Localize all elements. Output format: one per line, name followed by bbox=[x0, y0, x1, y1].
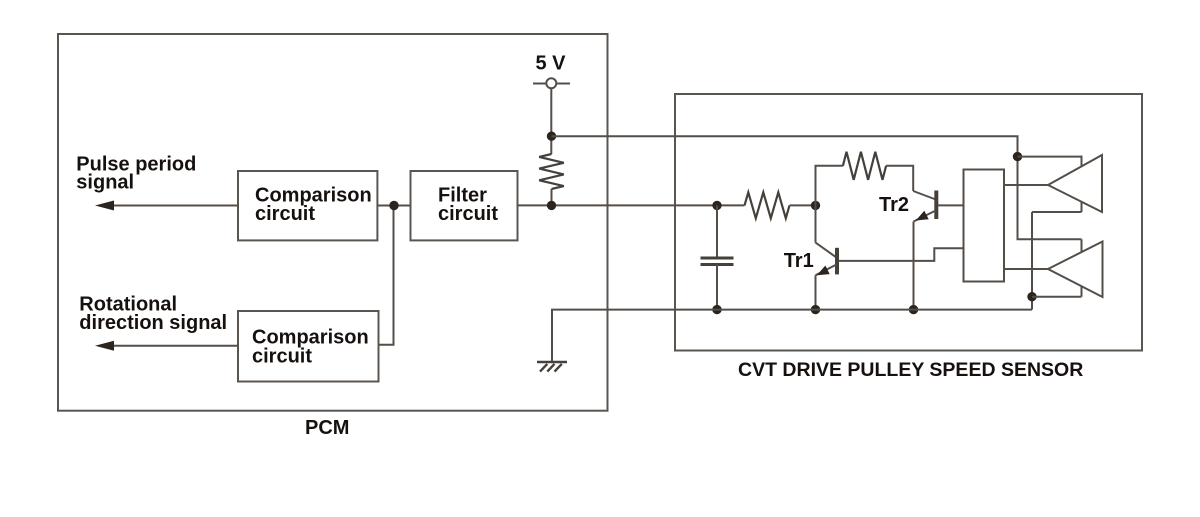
node D junction dot (capacitor tap) bbox=[712, 201, 721, 210]
wire Tr2 emitter to ground rail bbox=[913, 222, 915, 310]
comparison circuit box U1 bbox=[238, 171, 377, 240]
wire R2 to node E bbox=[790, 204, 816, 206]
wire main signal line bbox=[518, 204, 745, 206]
comparison circuit box U3 bbox=[238, 311, 379, 382]
wire arrow rotational direction output bbox=[95, 341, 238, 351]
wire Tr2 base to IC bbox=[938, 204, 964, 206]
coil L2 core bar bbox=[1081, 239, 1083, 296]
5V terminal bbox=[533, 53, 570, 89]
coil L2 pickup triangle bbox=[1048, 242, 1103, 298]
svg-text:Tr1: Tr1 bbox=[784, 250, 814, 272]
wire upper coil bottom bbox=[1032, 211, 1082, 213]
wire IC to upper coil apex bbox=[1004, 184, 1048, 186]
svg-text:signal: signal bbox=[76, 172, 134, 194]
node G junction dot bbox=[909, 305, 918, 314]
svg-text:circuit: circuit bbox=[255, 203, 315, 225]
transistor Tr2 bbox=[913, 191, 936, 222]
svg-text:direction signal: direction signal bbox=[79, 312, 227, 334]
label Rotational direction signal bbox=[79, 294, 227, 335]
node C junction dot bbox=[547, 201, 556, 210]
node E junction dot bbox=[811, 201, 820, 210]
filter circuit box U2 bbox=[411, 171, 518, 240]
wire coil return vertical bbox=[1031, 212, 1033, 310]
coil L1 core bar bbox=[1081, 156, 1083, 213]
wire ground rail bbox=[552, 310, 1032, 362]
coil L1 pickup triangle bbox=[1048, 155, 1102, 212]
wire node H to lower coil bottom bbox=[1032, 296, 1082, 298]
resistor R3 feedback bbox=[843, 152, 886, 180]
wire U1 to filter bbox=[377, 205, 410, 207]
PCM box bbox=[58, 34, 608, 411]
IC block bbox=[964, 170, 1005, 282]
svg-text:5 V: 5 V bbox=[536, 53, 567, 75]
wire R3 to Tr2 collector bbox=[886, 166, 913, 191]
node B junction dot bbox=[547, 132, 556, 141]
node H junction dot bbox=[1027, 292, 1036, 301]
wire arrow pulse period output bbox=[95, 201, 238, 211]
label Pulse period signal bbox=[76, 154, 196, 194]
svg-text:PCM: PCM bbox=[305, 417, 349, 439]
wire Tr1 emitter to ground rail bbox=[815, 275, 817, 309]
wire top rail 5V feed bbox=[552, 136, 1082, 239]
resistor R2 series bbox=[745, 192, 790, 218]
node F junction dot bbox=[811, 305, 820, 314]
resistor R1 pull-up bbox=[539, 154, 564, 189]
sensor box bbox=[675, 94, 1142, 351]
svg-text:CVT DRIVE PULLEY SPEED SENSOR: CVT DRIVE PULLEY SPEED SENSOR bbox=[738, 359, 1083, 381]
wire top branch bbox=[816, 166, 843, 206]
wire J10 to upper coil top bbox=[1018, 156, 1082, 158]
wire Tr1 base to IC bbox=[839, 248, 964, 261]
ground bbox=[537, 362, 567, 372]
wire 5V to node B bbox=[550, 88, 552, 154]
node A junction dot bbox=[389, 201, 398, 210]
node J10 junction dot bbox=[1013, 152, 1022, 161]
node J6 junction dot (capacitor to ground rail) bbox=[712, 305, 721, 314]
svg-text:circuit: circuit bbox=[252, 345, 312, 367]
svg-text:circuit: circuit bbox=[438, 203, 498, 225]
capacitor C1 bbox=[701, 205, 734, 309]
wire IC to lower coil apex bbox=[1004, 268, 1048, 270]
wire node E to Tr1 collector bbox=[815, 205, 817, 242]
wire R1 to main line bbox=[551, 189, 553, 205]
wire node A to U3 feedback bbox=[379, 206, 394, 345]
transistor Tr1 bbox=[816, 243, 838, 276]
svg-text:Tr2: Tr2 bbox=[879, 194, 909, 216]
